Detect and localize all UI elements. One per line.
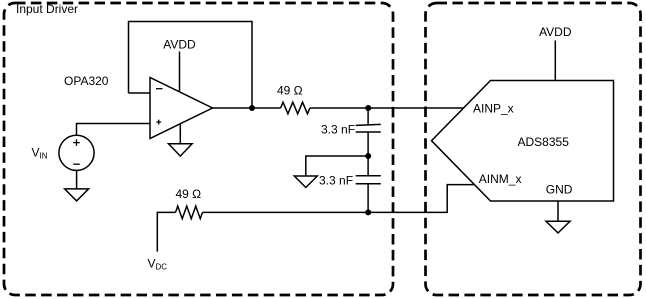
wire AVDD pin (ADC): [554, 41, 556, 81]
resistor R1 49 ohm: [281, 102, 310, 114]
node capacitor bottom junction: [365, 209, 371, 215]
svg-text:AVDD: AVDD: [539, 25, 572, 39]
svg-text:3.3 nF: 3.3 nF: [319, 173, 353, 187]
svg-text:AINM_x: AINM_x: [479, 172, 522, 186]
svg-text:ADS8355: ADS8355: [518, 135, 570, 149]
node output junction: [249, 105, 255, 111]
wire VDC riser: [157, 212, 175, 251]
voltage source VIN: [59, 135, 94, 170]
svg-text:49 Ω: 49 Ω: [176, 187, 202, 201]
wire op-amp output: [213, 107, 281, 109]
op-amp U1 OPA320: [150, 78, 213, 139]
node capacitor middle junction: [365, 153, 371, 159]
op-amp minus sign: [156, 88, 163, 90]
capacitor C1 3.3 nF: [367, 108, 369, 125]
svg-text:OPA320: OPA320: [64, 74, 109, 88]
svg-text:3.3 nF: 3.3 nF: [321, 123, 355, 137]
wire middle node to ground: [306, 156, 368, 176]
source plus sign: [73, 139, 80, 146]
wire GND pin (ADC): [557, 201, 559, 221]
wire AINM line with step: [203, 185, 475, 213]
svg-text:Input Driver: Input Driver: [16, 2, 78, 16]
source minus sign: [73, 163, 80, 165]
node capacitor top junction: [365, 105, 371, 111]
wire VIN to noninverting input: [77, 124, 151, 136]
op-amp plus sign: [156, 120, 161, 125]
ground (ADC): [546, 221, 570, 233]
wire feedback loop: [129, 22, 253, 109]
resistor R2 49 ohm: [176, 206, 203, 219]
svg-text:GND: GND: [546, 183, 573, 197]
ADC U2 ADS8355 body: [432, 81, 614, 202]
wire inverting input stub: [129, 92, 151, 94]
svg-text:AVDD: AVDD: [163, 38, 196, 52]
capacitor C2 3.3 nF: [367, 156, 369, 176]
ground (filter midpoint): [294, 176, 317, 188]
ADS8355 region boundary: [426, 3, 641, 295]
svg-text:49 Ω: 49 Ω: [277, 83, 303, 97]
svg-text:AINP_x: AINP_x: [473, 102, 514, 116]
ground (op-amp): [179, 125, 181, 144]
input driver region boundary: [4, 3, 393, 295]
wire AVDD supply pin: [179, 52, 181, 93]
ground (VIN): [76, 170, 78, 189]
wire AINP line: [310, 107, 464, 109]
